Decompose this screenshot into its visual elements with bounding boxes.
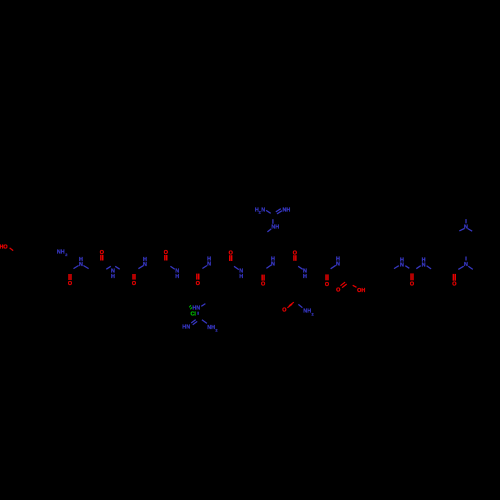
svg-text:NH: NH [207,325,215,331]
svg-text:N: N [261,207,265,213]
bond N-C(=O) blue half (amide 2 left) [106,266,111,269]
bond N-C2(ring) blue half (down-left) [459,229,464,231]
carbonyl C=O 10 double bond red halves (pointing down) [452,274,454,281]
bond C-NH2 blue half (guanidine 2) [202,320,207,324]
svg-text:O: O [282,307,286,313]
bond N2-CH2 blue half [427,266,432,269]
carbonyl C=O 6 double bond red halves [229,255,231,261]
svg-text:H: H [239,274,243,280]
svg-text:H: H [175,274,179,280]
bond NH-CH2 blue half [267,229,271,232]
bond C-NH2 blue half (Asn) [298,304,302,307]
svg-text:N: N [422,262,426,268]
svg-text:N: N [207,262,211,268]
bond HN-CH2 blue half (up-right) [201,304,205,307]
svg-text:Cl: Cl [190,311,196,317]
bond N1-C(=O) blue half [405,266,409,269]
svg-text:N: N [79,262,83,268]
bond N-C(=O) blue half (amide 3 left) [138,266,143,269]
bond N-C(=O) blue half (amide 8 left) [298,266,303,269]
svg-text:N: N [464,262,468,268]
bond C-OH red half [353,285,357,287]
bond C-NH blue half (vertical) [272,219,274,224]
bond C=NH double blue dashes [277,211,282,214]
bond O-C(ring) red half [10,248,14,251]
bond N-CH3 blue half [468,266,473,269]
bond N2-C(=O) blue half [416,266,420,269]
urea C=O double bond red halves [410,273,412,280]
bond N-C(=O) blue half (amide 4 left) [170,266,174,269]
carbonyl C=O 2 double bond red halves [100,255,102,261]
bond N-C(=O) blue half (amide 5 left) [202,266,207,269]
carbonyl C=O 9 double bond red halves (pointing down) [325,274,327,280]
svg-text:O: O [336,288,340,294]
bond N-C4(ring) blue half (vertical) [465,257,467,261]
carbonyl C=O 7 double bond red halves (pointing down) [261,275,263,281]
COOH: C=O double bond red halves (diagonal) [342,284,347,288]
svg-text:O: O [68,281,72,287]
svg-text:NH: NH [283,207,291,213]
bond N-C(=O) blue half (amide 6 left) [234,266,239,269]
svg-text:HN: HN [182,325,190,331]
svg-text:O: O [410,281,414,287]
bond HN-C blue half (vertical) [197,312,199,315]
svg-text:O: O [196,281,200,287]
carbonyl C=O 8 double bond red halves [293,255,295,261]
svg-text:N: N [271,262,275,268]
bond N-C6(ring) blue half (down-right) [468,229,473,232]
Asn side chain: C=O double bond red halves (diagonal) [289,302,294,306]
svg-text:O: O [132,281,136,287]
svg-text:NH: NH [271,225,279,231]
svg-text:N: N [143,262,147,268]
svg-text:N: N [400,262,404,268]
bond N-CA blue half (amide 1 right) [83,266,88,269]
svg-text:N: N [464,225,468,231]
bond N1-CH3 blue half [394,266,399,269]
carbonyl C=O 5 double bond red halves (pointing down) [196,274,198,280]
svg-text:O: O [261,282,265,288]
green double-bond dashes (S) [189,305,191,307]
svg-text:NH: NH [57,249,65,255]
bond N-CH3 blue half (vertical, methyl up) [465,219,467,223]
bond N-C(=O) blue half (amide 7 left) [266,265,271,268]
svg-text:NH: NH [303,309,311,315]
carbonyl C=O 1 double bond red halves (pointing down) [68,274,70,280]
bond C=NH double blue dashes (guanidine 2) [191,320,196,323]
bond N-C(=O) blue half (amide 1 left) [74,266,79,269]
svg-text:O: O [452,281,456,287]
carbonyl C=O 3 double bond red halves (pointing down) [132,274,134,280]
svg-text:OH: OH [357,288,365,294]
svg-text:H: H [111,274,115,280]
svg-text:H: H [303,274,307,280]
svg-text:N: N [336,262,340,268]
bond N-C(=O) blue half (amide 9 left) [331,265,336,269]
svg-text:HO: HO [0,244,8,250]
svg-text:O: O [325,282,329,288]
bond N-CA blue half (amide 2 right) [115,266,120,269]
bond N-C(=O) blue half [458,266,463,269]
carbonyl C=O 4 double bond red halves [164,255,166,261]
bond H2N-C blue half [266,210,271,213]
